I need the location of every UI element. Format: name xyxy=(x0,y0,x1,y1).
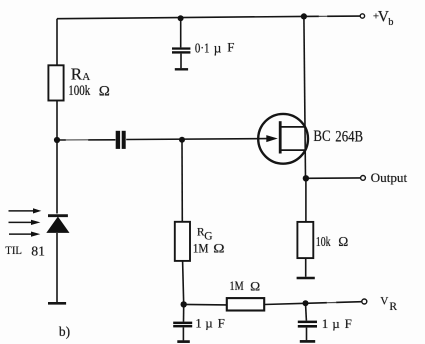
svg-text:µ: µ xyxy=(332,316,340,331)
svg-text:Ω: Ω xyxy=(99,83,110,99)
svg-text:R: R xyxy=(389,301,397,313)
svg-text:BC: BC xyxy=(313,128,330,145)
svg-text:Output: Output xyxy=(371,170,408,185)
svg-text:Ω: Ω xyxy=(213,240,224,255)
svg-text:1: 1 xyxy=(322,316,329,331)
svg-text:81: 81 xyxy=(31,245,45,260)
svg-text:1M: 1M xyxy=(193,241,209,255)
svg-text:V: V xyxy=(380,295,389,307)
svg-text:b): b) xyxy=(59,324,70,339)
svg-text:1M: 1M xyxy=(230,278,245,293)
svg-text:0·1: 0·1 xyxy=(195,40,210,55)
svg-text:A: A xyxy=(82,71,90,83)
svg-text:264B: 264B xyxy=(335,128,363,145)
svg-text:F: F xyxy=(345,316,352,331)
svg-text:µ: µ xyxy=(205,316,213,331)
svg-text:1: 1 xyxy=(195,315,202,330)
svg-text:10k: 10k xyxy=(316,234,331,249)
svg-text:µ: µ xyxy=(214,41,222,56)
svg-text:F: F xyxy=(218,315,225,330)
svg-text:100k: 100k xyxy=(68,83,90,99)
svg-text:Ω: Ω xyxy=(250,278,260,293)
svg-text:R: R xyxy=(71,64,83,83)
svg-text:F: F xyxy=(227,39,234,54)
svg-text:Ω: Ω xyxy=(338,234,348,249)
svg-text:TIL: TIL xyxy=(5,243,22,257)
svg-text:b: b xyxy=(388,17,393,28)
